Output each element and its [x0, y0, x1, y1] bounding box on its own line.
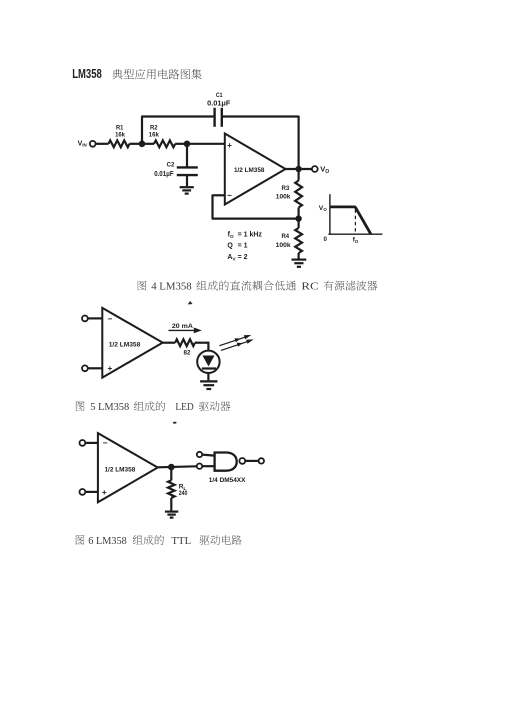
svg-text:LM358: LM358	[72, 67, 102, 81]
ground under LED	[200, 380, 217, 382]
wire RL to ground	[170, 498, 172, 511]
svg-text:82: 82	[184, 349, 191, 356]
wire Vin to R1	[96, 143, 109, 145]
svg-text:+: +	[108, 364, 113, 373]
wire op-amp - input feedback left	[213, 194, 225, 196]
wire LED cathode to ground	[207, 373, 209, 380]
op-amp U2 1/2 LM358 triangle	[102, 308, 162, 378]
wire R4 to ground	[298, 253, 300, 259]
caption fig4 图	[138, 281, 147, 291]
wire gate lower input	[202, 465, 214, 467]
LED D1 cathode bar	[202, 367, 216, 369]
graph flat response segment	[330, 205, 356, 208]
resistor 82 body	[175, 339, 195, 346]
svg-text:−: −	[108, 314, 113, 323]
gate input terminal upper	[197, 452, 202, 457]
wire feedback down	[211, 195, 213, 219]
caption fig6 驱动电路	[200, 535, 242, 545]
svg-text:0.01μF: 0.01μF	[154, 171, 174, 178]
ground under RL	[165, 511, 178, 513]
svg-text:AV: AV	[227, 254, 236, 261]
resistor RL body	[168, 480, 175, 497]
svg-text:= 1 kHz: = 1 kHz	[238, 232, 263, 239]
wire C1 to output rail	[223, 115, 299, 117]
NAND gate U4 output bubble	[239, 458, 245, 464]
svg-text:1/4 DM54XX: 1/4 DM54XX	[209, 477, 246, 484]
svg-text:VO: VO	[320, 165, 329, 176]
wire upper input	[88, 317, 103, 319]
wire op-amp output to Vo terminal	[286, 168, 312, 170]
light emission arrow upper	[219, 337, 246, 346]
LED D1 circle	[197, 351, 219, 373]
wire gate output	[245, 460, 258, 462]
input terminal lower (non-inverting)	[82, 365, 88, 371]
wire C2 to ground	[186, 176, 188, 186]
input terminal Vin	[90, 141, 96, 147]
LED D1 anode triangle	[202, 356, 214, 367]
ground under C2	[180, 186, 194, 188]
svg-text:VO: VO	[319, 205, 328, 212]
svg-text:TTL: TTL	[171, 535, 191, 547]
light emission arrow lower	[221, 341, 249, 350]
stray caret mark	[188, 301, 193, 305]
ground under R4	[292, 259, 307, 261]
caption fig4 组成的直流耦合低通	[197, 281, 297, 291]
input terminal upper U3	[80, 440, 86, 446]
current arrow 20 mA	[169, 329, 196, 331]
wire corner down to LED anode	[207, 342, 209, 351]
wire upper input U3	[85, 442, 98, 444]
wire R3 to node C	[298, 208, 300, 229]
input terminal lower U3	[80, 489, 86, 495]
svg-text:16k: 16k	[115, 132, 125, 139]
svg-text:fO: fO	[353, 237, 359, 244]
svg-text:RC: RC	[301, 281, 318, 293]
resistor R3 body	[295, 181, 302, 208]
op-amp U3 1/2 LM358 triangle	[98, 433, 158, 502]
wire feedback to node C	[212, 218, 299, 220]
svg-text:16k: 16k	[149, 132, 159, 139]
svg-text:1/2 LM358: 1/2 LM358	[109, 341, 141, 348]
graph y-axis	[329, 194, 331, 235]
graph rolloff slope segment	[355, 207, 371, 234]
output terminal TTL	[259, 458, 264, 463]
node B junction	[184, 141, 191, 148]
wire R1 to node A	[130, 143, 143, 145]
svg-text:LED: LED	[175, 401, 193, 413]
caption fig6 组成的	[133, 535, 164, 545]
caption fig5 组成的	[134, 401, 165, 411]
wire lower input U3	[85, 491, 98, 493]
graph dashed line at fO	[354, 210, 356, 234]
resistor R4 body	[295, 228, 302, 253]
wire output to R3	[298, 169, 300, 181]
svg-text:R4: R4	[282, 233, 290, 240]
caption fig5 图	[76, 402, 85, 412]
svg-text:−: −	[103, 438, 108, 447]
input terminal upper (inverting)	[82, 316, 88, 322]
wire R2 to node B	[175, 143, 187, 145]
svg-text:R3: R3	[281, 185, 289, 192]
svg-text:6 LM358: 6 LM358	[88, 535, 127, 547]
svg-text:+: +	[227, 141, 232, 150]
svg-text:5 LM358: 5 LM358	[90, 401, 130, 413]
caption fig4 有源滤波器	[324, 281, 378, 291]
wire node A to R2	[142, 143, 154, 145]
output terminal Vo	[312, 166, 318, 172]
capacitor C2 bottom plate	[177, 174, 198, 176]
wire R5 to LED	[195, 342, 209, 344]
svg-text:1/2 LM358: 1/2 LM358	[234, 167, 265, 174]
gate input terminal lower	[197, 464, 202, 469]
wire node B to op-amp + input	[187, 143, 225, 145]
svg-text:240: 240	[179, 490, 188, 497]
resistor R1 body	[109, 140, 130, 147]
capacitor C2 top plate	[177, 166, 198, 168]
wire op-amp output to gate	[158, 466, 197, 467]
title CJK 典型应用电路图集	[112, 69, 202, 80]
wire node B down to C2	[186, 144, 188, 167]
svg-text:100k: 100k	[276, 242, 291, 249]
svg-text:100k: 100k	[276, 193, 291, 200]
node A junction	[139, 141, 146, 148]
svg-text:1/2 LM358: 1/2 LM358	[104, 466, 135, 473]
graph x-axis	[328, 233, 382, 235]
wire op-amp output to R5	[163, 342, 176, 344]
node D junction	[168, 464, 175, 471]
svg-text:−: −	[227, 191, 232, 200]
node output junction	[295, 166, 301, 172]
capacitor C1 left plate	[213, 108, 215, 127]
wire node A up to C1 rail	[141, 117, 143, 144]
wire rail to C1	[141, 115, 214, 117]
wire node D to RL	[170, 467, 172, 480]
caption fig5 驱动器	[199, 401, 230, 411]
capacitor C1 right plate	[221, 108, 223, 127]
svg-text:0.01μF: 0.01μF	[207, 98, 231, 107]
svg-text:Q: Q	[227, 243, 233, 250]
svg-text:+: +	[102, 488, 107, 497]
svg-text:C2: C2	[167, 162, 175, 169]
wire rail down to output node	[298, 116, 300, 169]
svg-text:= 1: = 1	[238, 243, 248, 250]
NAND gate U4 body	[215, 453, 237, 471]
node C junction	[295, 215, 301, 221]
stray dash mark	[173, 422, 177, 424]
wire lower input	[88, 367, 103, 369]
svg-text:20 mA: 20 mA	[172, 323, 193, 330]
svg-text:= 2: = 2	[238, 254, 248, 261]
wire gate upper input	[202, 455, 214, 456]
caption fig6 图	[76, 535, 85, 545]
svg-text:0: 0	[323, 236, 327, 243]
svg-text:VIN: VIN	[78, 140, 87, 147]
resistor R2 body	[154, 140, 175, 147]
op-amp U1 1/2 LM358 triangle	[225, 134, 286, 205]
svg-text:fO: fO	[228, 232, 234, 239]
svg-text:4 LM358: 4 LM358	[151, 281, 192, 293]
